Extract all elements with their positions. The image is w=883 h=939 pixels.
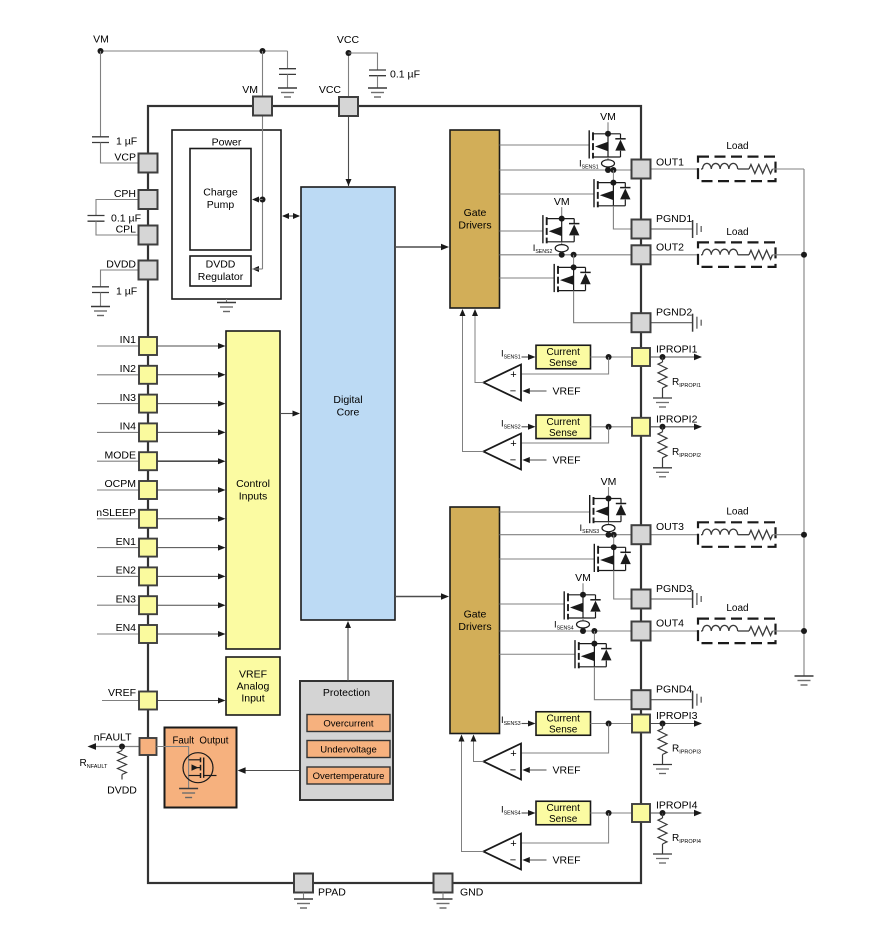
label PGND3 xyxy=(656,583,692,595)
svg-text:VREF: VREF xyxy=(239,669,267,681)
junction VCC xyxy=(346,50,352,56)
svg-text:Overtemperature: Overtemperature xyxy=(313,771,385,782)
node VREF (comparator 1) xyxy=(553,386,581,398)
svg-text:0.1 µF: 0.1 µF xyxy=(390,69,420,81)
pad VM xyxy=(253,97,272,116)
svg-text:VREF: VREF xyxy=(553,855,581,867)
arrow into current sense 2 xyxy=(528,424,536,430)
resistor load 2 xyxy=(749,250,804,259)
wire VREF into comparator 2 xyxy=(529,459,547,461)
label ISENS4 (current sense input) xyxy=(501,805,521,817)
junction phase B (OUT4) xyxy=(591,628,597,634)
junction rail OUT4 xyxy=(801,628,807,634)
svg-text:IN3: IN3 xyxy=(120,392,137,404)
transistor fault-output MOSFET xyxy=(183,753,217,783)
svg-text:−: − xyxy=(510,855,516,867)
svg-text:Current: Current xyxy=(547,347,581,358)
label PGND2 xyxy=(656,307,692,319)
label R_IPROPI3 xyxy=(672,744,701,756)
svg-text:1 µF: 1 µF xyxy=(116,286,137,298)
wire gate LS (OUT3) xyxy=(500,558,595,560)
inductor load 3 xyxy=(701,529,749,535)
wire gate LS (OUT1) xyxy=(500,193,595,195)
arrow VREF into comparator 4 xyxy=(522,857,530,863)
wire nSLEEP external stub xyxy=(97,518,139,520)
label EN1 xyxy=(116,536,137,548)
ground (DVDD cap) xyxy=(91,307,110,316)
block Overtemperature xyxy=(307,767,390,784)
junction VM internal xyxy=(260,197,266,203)
pad PGND3 xyxy=(632,590,651,609)
wire sense to phase (OUT2) xyxy=(561,252,563,255)
wire cap to ground xyxy=(377,76,379,88)
svg-text:Fault Output: Fault Output xyxy=(172,736,228,747)
arrow into VREF analog input xyxy=(218,698,226,704)
wire VM rail to bypass cap xyxy=(287,51,289,69)
wire nSLEEP to control inputs xyxy=(157,518,218,520)
pad EN1 xyxy=(139,539,157,557)
label IPROPI2 xyxy=(656,413,698,425)
pad IPROPI4 xyxy=(632,804,650,822)
junction VM at pad xyxy=(260,48,266,54)
arrow into control inputs (nSLEEP) xyxy=(218,516,226,522)
arrow VREF into comparator 2 xyxy=(522,457,530,463)
label nFAULT xyxy=(94,732,132,744)
svg-text:DVDD: DVDD xyxy=(107,785,137,797)
arrow IPROPI4 xyxy=(694,810,702,816)
label OUT3 xyxy=(656,521,684,533)
transistor OUT4 low-side xyxy=(575,640,612,668)
label IN1 xyxy=(120,334,137,346)
wire EN1 external stub xyxy=(97,547,139,549)
junction IPROPI3 xyxy=(660,721,666,727)
wire VM down to 1uF cap xyxy=(100,51,102,137)
node VM (OUT2 high-side) xyxy=(554,196,570,208)
label EN4 xyxy=(116,622,137,634)
block Current Sense 4 xyxy=(536,801,591,825)
wire CPH to flying cap xyxy=(96,200,139,216)
ground (GND) xyxy=(434,899,453,908)
wire current sense 1 output xyxy=(591,356,632,358)
wire gate LS (OUT2) xyxy=(500,277,555,279)
arrow into control inputs (EN1) xyxy=(218,545,226,551)
pad MODE xyxy=(139,452,157,470)
resistor R_IPROPI1 xyxy=(658,357,667,398)
wire IN3 external stub xyxy=(97,403,139,405)
wire IN3 to control inputs xyxy=(157,403,218,405)
svg-text:OCPM: OCPM xyxy=(105,478,137,490)
junction LS drain (OUT2) xyxy=(571,264,577,270)
wire IPROPI1 out xyxy=(650,356,694,358)
svg-text:Sense: Sense xyxy=(549,725,578,736)
resistor load 4 xyxy=(749,627,804,636)
pad OUT4 xyxy=(632,622,651,641)
pad OUT1 xyxy=(632,160,651,179)
svg-text:VREF: VREF xyxy=(108,687,136,699)
svg-text:Load: Load xyxy=(726,227,748,238)
inductor load 2 xyxy=(701,249,749,255)
wire ISENS4 into current sense xyxy=(522,812,530,814)
wire VM rail horizontal xyxy=(101,50,288,52)
pad PGND2 xyxy=(632,313,651,332)
wire phase line (OUT2) xyxy=(500,254,632,256)
svg-text:Control: Control xyxy=(236,478,270,490)
wire LS source to PGND (OUT1) xyxy=(613,206,631,229)
label R_nFAULT xyxy=(80,758,109,770)
svg-text:Drivers: Drivers xyxy=(458,220,491,232)
pad PPAD xyxy=(294,874,313,893)
wire VREF to analog input block xyxy=(157,700,218,702)
wire HS source to sense (OUT1) xyxy=(607,157,609,160)
wire OCPM external stub xyxy=(97,489,139,491)
arrow into control inputs (IN2) xyxy=(218,372,226,378)
wire EN2 to control inputs xyxy=(157,575,218,577)
load 4 (dashed box) xyxy=(698,619,776,644)
junction OUT3 HS drain xyxy=(606,496,612,502)
node VM (top-left net label) xyxy=(93,34,109,46)
wire VREF into comparator 3 xyxy=(529,769,547,771)
block Protection xyxy=(300,681,393,800)
wire gate LS (OUT4) xyxy=(500,653,576,655)
ground (R_IPROPI3) xyxy=(653,765,672,774)
pad OUT2 xyxy=(632,245,651,264)
svg-text:VCP: VCP xyxy=(114,152,136,164)
wire VREF into comparator 4 xyxy=(529,859,547,861)
wire VCC to bypass cap xyxy=(349,53,378,70)
svg-text:IPROPI2: IPROPI2 xyxy=(656,413,698,425)
wire nFAULT out xyxy=(94,746,139,748)
svg-text:Digital: Digital xyxy=(333,394,362,406)
label ISENS4 (bridge) xyxy=(554,619,574,631)
pad PGND4 xyxy=(632,690,651,709)
pad EN3 xyxy=(139,596,157,614)
wire IPROPI3 out xyxy=(650,723,694,725)
wire comparator 4 output xyxy=(462,741,484,852)
wire EN2 external stub xyxy=(97,575,139,577)
block DVDD Regulator xyxy=(190,256,251,286)
ground (PGND2) xyxy=(693,314,702,332)
wire HS source to sense (OUT2) xyxy=(561,242,563,245)
wire EN1 to control inputs xyxy=(157,547,218,549)
wire CS4 to comparator plus xyxy=(521,813,609,843)
label GND xyxy=(460,887,484,899)
arrow into control inputs (OCPM) xyxy=(218,487,226,493)
label ISENS1 (current sense input) xyxy=(501,349,521,361)
svg-text:IPROPI1: IPROPI1 xyxy=(656,344,698,356)
wire load return rail xyxy=(803,169,805,676)
block Undervoltage xyxy=(307,741,390,758)
wire PPAD ground lead xyxy=(303,893,305,900)
op-amp comparator 3 xyxy=(484,744,522,780)
junction OUT1 HS drain xyxy=(605,131,611,137)
label VCC (pad) xyxy=(319,84,342,96)
wire CS2 to comparator plus xyxy=(521,427,609,443)
svg-text:PGND2: PGND2 xyxy=(656,307,692,319)
svg-text:EN4: EN4 xyxy=(116,622,137,634)
wire OUT1 to load xyxy=(651,168,698,170)
junction phase A (OUT3) xyxy=(606,532,612,538)
svg-text:−: − xyxy=(510,455,516,467)
wire IN1 external stub xyxy=(97,345,139,347)
wire DVDD to 1uF cap xyxy=(101,270,139,287)
label PGND4 xyxy=(656,684,692,696)
svg-text:Core: Core xyxy=(337,407,360,419)
arrow into control inputs (IN4) xyxy=(218,429,226,435)
arrow into control inputs (IN1) xyxy=(218,343,226,349)
node VREF (comparator 3) xyxy=(553,765,581,777)
wire PGND4 to ground xyxy=(651,699,693,701)
wire LS source to PGND (OUT3) xyxy=(614,571,632,600)
wire sense to phase (OUT3) xyxy=(608,532,610,535)
resistor load 1 xyxy=(749,165,804,174)
block Control Inputs xyxy=(226,331,280,649)
arrow into digital core (VCC) xyxy=(346,179,352,186)
svg-text:Power: Power xyxy=(212,137,242,149)
wire phase line (OUT3) xyxy=(500,534,632,536)
node VREF (comparator 4) xyxy=(553,855,581,867)
wire VM lead (OUT1) xyxy=(607,122,609,134)
svg-text:IPROPI3: IPROPI3 xyxy=(656,710,698,722)
block Digital Core xyxy=(301,187,395,620)
pad OUT3 xyxy=(632,525,651,544)
ground (VCC bypass) xyxy=(368,88,387,97)
pad GND xyxy=(434,874,453,893)
wire EN4 to control inputs xyxy=(157,633,218,635)
wire EN3 to control inputs xyxy=(157,604,218,606)
block Power (outer) xyxy=(172,130,281,299)
svg-text:Current: Current xyxy=(547,714,581,725)
wire phase to LS drain (OUT2) xyxy=(573,255,575,268)
label ISENS2 (bridge) xyxy=(533,243,553,255)
pad IPROPI3 xyxy=(632,715,650,733)
current sensor ISENS2 (ellipse) xyxy=(555,245,568,252)
wire MODE to control inputs xyxy=(157,460,218,462)
svg-text:Overcurrent: Overcurrent xyxy=(323,719,374,730)
wire LS source to PGND (OUT4) xyxy=(594,667,631,700)
bidirectional arrow Power-Digital Core xyxy=(282,213,300,219)
wire EN4 external stub xyxy=(97,633,139,635)
svg-text:Sense: Sense xyxy=(549,814,578,825)
svg-text:IN1: IN1 xyxy=(120,334,137,346)
capacitor 1uF at VCP xyxy=(92,137,109,143)
wire PGND3 to ground xyxy=(651,598,693,600)
label IPROPI4 xyxy=(656,800,698,812)
svg-text:IN4: IN4 xyxy=(120,421,137,433)
svg-text:nFAULT: nFAULT xyxy=(94,732,132,744)
svg-text:VM: VM xyxy=(601,476,617,488)
label Load 1 xyxy=(726,141,748,152)
svg-text:VM: VM xyxy=(554,196,570,208)
label ISENS3 (current sense input) xyxy=(501,715,521,727)
wire IPROPI2 out xyxy=(650,426,694,428)
wire flying cap to CPL xyxy=(96,221,139,235)
label R_IPROPI1 xyxy=(672,377,701,389)
block Current Sense 1 xyxy=(536,345,591,369)
wire VM pad drop xyxy=(262,51,264,97)
load 1 (dashed box) xyxy=(698,157,776,182)
arrow into current sense 1 xyxy=(528,354,536,360)
transistor OUT1 high-side xyxy=(589,130,626,158)
wire phase to LS drain (OUT1) xyxy=(612,170,614,183)
junction CS1 output xyxy=(606,354,612,360)
pad IN4 xyxy=(139,423,157,441)
current sensor ISENS1 (ellipse) xyxy=(602,160,615,167)
label VCP xyxy=(114,152,136,164)
pad EN4 xyxy=(139,625,157,643)
current sensor ISENS3 (ellipse) xyxy=(602,525,615,532)
wire protection to digital core xyxy=(347,627,349,681)
wire OUT3 to load xyxy=(651,534,698,536)
arrow comp2 into gate drivers 1 xyxy=(460,309,466,316)
wire ISENS2 into current sense xyxy=(522,426,530,428)
label CPL xyxy=(116,224,137,236)
wire phase to LS drain (OUT3) xyxy=(613,535,615,548)
svg-text:IN2: IN2 xyxy=(120,363,137,375)
node VM (OUT3 high-side) xyxy=(601,476,617,488)
op-amp comparator 2 xyxy=(484,434,522,470)
wire VCC internal to digital core xyxy=(348,117,350,187)
junction phase B (OUT2) xyxy=(571,252,577,258)
arrow into control inputs (EN2) xyxy=(218,573,226,579)
capacitor 0.1uF VCC xyxy=(369,70,386,76)
transistor OUT2 high-side xyxy=(543,215,580,243)
label IPROPI3 xyxy=(656,710,698,722)
arrow into DVDD regulator xyxy=(252,266,263,272)
svg-text:VM: VM xyxy=(575,572,591,584)
label 0.1 uF (VCC cap) xyxy=(390,69,420,81)
wire phase line (OUT1) xyxy=(500,169,632,171)
label R_IPROPI2 xyxy=(672,447,701,459)
wire CS3 to comparator plus xyxy=(521,724,609,754)
wire IPROPI4 out xyxy=(650,812,694,814)
label DVDD xyxy=(106,259,136,271)
svg-text:Gate: Gate xyxy=(464,609,487,621)
pad nSLEEP xyxy=(139,510,157,528)
arrow IPROPI3 xyxy=(694,720,702,726)
label Load 4 xyxy=(726,603,748,614)
wire comparator 1 output xyxy=(475,315,484,383)
node VM (OUT1 high-side) xyxy=(600,111,616,123)
wire nFAULT pad to fault mosfet xyxy=(157,747,189,789)
label EN3 xyxy=(116,593,137,605)
label EN2 xyxy=(116,565,137,577)
junction nFAULT pullup xyxy=(119,744,125,750)
arrow VREF into comparator 1 xyxy=(522,388,530,394)
resistor load 3 xyxy=(749,530,804,539)
wire VM lead (OUT4) xyxy=(582,583,584,595)
junction CS2 output xyxy=(606,424,612,430)
ground (PGND3) xyxy=(693,590,702,608)
svg-text:PGND4: PGND4 xyxy=(656,684,692,696)
svg-text:EN2: EN2 xyxy=(116,565,137,577)
junction CS3 output xyxy=(606,721,612,727)
arrow into digital core (protection) xyxy=(345,621,351,628)
load 2 (dashed box) xyxy=(698,242,776,267)
capacitor 1uF DVDD xyxy=(92,287,109,293)
label IN3 xyxy=(120,392,137,404)
resistor R_IPROPI2 xyxy=(658,427,667,468)
label 1 uF (DVDD cap) xyxy=(116,286,137,298)
pad EN2 xyxy=(139,567,157,585)
wire MODE external stub xyxy=(97,460,139,462)
block Gate Drivers 2 xyxy=(450,507,500,734)
junction IPROPI1 xyxy=(660,354,666,360)
label VREF xyxy=(108,687,136,699)
wire EN3 external stub xyxy=(97,604,139,606)
label OUT4 xyxy=(656,618,684,630)
wire cap to ground xyxy=(287,74,289,88)
op-amp comparator 1 xyxy=(484,365,522,401)
junction rail OUT3 xyxy=(801,532,807,538)
wire GND ground lead xyxy=(442,893,444,900)
svg-text:Current: Current xyxy=(547,417,581,428)
transistor OUT2 low-side xyxy=(554,264,591,292)
wire OUT2 to load xyxy=(651,254,698,256)
wire gate HS (OUT1) xyxy=(500,144,590,146)
wire VREF into comparator 1 xyxy=(529,390,547,392)
label OCPM xyxy=(105,478,137,490)
wire VM lead (OUT2) xyxy=(561,207,563,219)
label nSLEEP xyxy=(96,507,136,519)
wire IN2 external stub xyxy=(97,374,139,376)
pad IN1 xyxy=(139,337,157,355)
wire VM to charge pump xyxy=(253,199,263,201)
svg-text:Current: Current xyxy=(547,803,581,814)
svg-text:Input: Input xyxy=(241,693,264,705)
arrow comp3 into gate drivers 2 xyxy=(471,735,477,742)
pad OCPM xyxy=(139,481,157,499)
transistor OUT3 high-side xyxy=(590,495,627,523)
wire HS source to sense (OUT3) xyxy=(608,522,610,525)
transistor OUT3 low-side xyxy=(594,544,631,572)
ground (load return) xyxy=(795,676,814,685)
pad VCP xyxy=(139,154,158,173)
label IPROPI1 xyxy=(656,344,698,356)
junction VM left xyxy=(98,48,104,54)
junction rail OUT2 xyxy=(801,252,807,258)
wire phase to LS drain (OUT4) xyxy=(593,631,595,644)
wire cap to VCP pin xyxy=(101,143,139,164)
junction LS drain (OUT1) xyxy=(610,180,616,186)
svg-text:VREF: VREF xyxy=(553,455,581,467)
wire LS source to PGND (OUT2) xyxy=(574,291,632,323)
label IN2 xyxy=(120,363,137,375)
junction phase B (OUT3) xyxy=(611,532,617,538)
wire comparator 3 output xyxy=(474,741,484,762)
svg-text:Gate: Gate xyxy=(464,207,487,219)
ground (R_IPROPI4) xyxy=(653,854,672,863)
wire current sense 2 output xyxy=(591,426,632,428)
op-amp comparator 4 xyxy=(484,834,522,870)
arrow protection to fault output xyxy=(238,767,299,773)
junction IPROPI4 xyxy=(660,810,666,816)
arrow comp1 into gate drivers 1 xyxy=(472,309,478,316)
ground (power block) xyxy=(217,303,236,312)
ground (PGND4) xyxy=(693,691,702,709)
IC boundary (device outline) xyxy=(148,106,641,883)
node VCC (top net label) xyxy=(337,34,360,46)
label OUT1 xyxy=(656,157,684,169)
label PPAD xyxy=(318,887,346,899)
svg-text:Load: Load xyxy=(726,507,748,518)
label 0.1 uF (flying cap) xyxy=(111,213,141,225)
block Current Sense 3 xyxy=(536,712,591,736)
transistor OUT1 low-side xyxy=(594,179,631,207)
svg-text:VCC: VCC xyxy=(319,84,342,96)
wire power block ground lead xyxy=(226,299,228,303)
junction phase A (OUT2) xyxy=(559,252,565,258)
ground (fault mosfet) xyxy=(179,789,198,798)
